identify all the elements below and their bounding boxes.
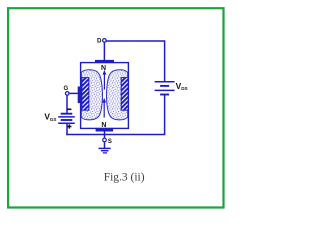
svg-text:S: S [108,139,112,145]
channel current arrow lower [102,98,106,118]
wire VDS battery to bottom bus [164,95,166,135]
ground symbol [99,148,111,153]
polarity plus sign [67,124,71,128]
polarity minus sign [67,109,71,111]
JFET body rectangle [81,63,129,129]
svg-text:N: N [101,122,106,129]
drain contact bar [95,60,114,63]
svg-text:G: G [63,86,68,92]
terminal G circle [65,92,69,96]
battery VGS negative short plate [61,113,73,115]
depletion region right (stippled) [106,70,127,120]
battery VDS negative short plate [160,85,169,87]
svg-text:N: N [101,65,106,72]
channel current arrow upper [103,70,107,90]
wire source bar to S circle [104,131,106,139]
battery VDS positive long plate 2 [155,89,175,91]
gate contact tab [78,87,82,104]
wire top horizontal D to VDS [106,40,165,42]
wire G circle to gate tab [69,92,78,94]
svg-text:GS: GS [50,117,57,122]
battery VGS negative short plate 2 [61,119,73,121]
wire bottom bus [66,134,165,136]
battery VGS positive long plate [58,116,75,118]
gate P region right (hatched) [121,78,128,111]
depletion region left (stippled) [81,70,102,120]
svg-text:DS: DS [181,86,187,91]
wire G circle down to VGS battery [66,95,68,114]
wire D vertical to drain bar [103,42,105,61]
source contact bar [96,128,114,131]
wire VGS battery to bottom bus [66,123,68,135]
svg-text:D: D [97,38,102,45]
gate P region left (hatched) [82,78,89,111]
svg-text:Fig.3 (ii): Fig.3 (ii) [104,172,145,184]
battery VDS negative short plate 2 [160,94,169,96]
terminal S circle [103,138,107,142]
battery VGS positive long plate 2 [58,122,75,124]
terminal D circle [103,39,107,43]
wire right vertical down to VDS battery [164,40,166,81]
wire S circle to ground [104,142,106,149]
battery VDS positive long plate [155,81,175,83]
